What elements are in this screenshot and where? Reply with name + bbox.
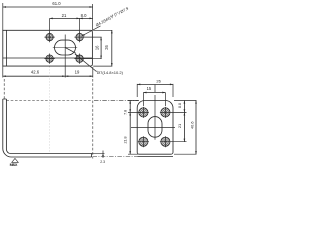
end caps — [3, 99, 92, 157]
plate outline (top view) — [3, 30, 93, 66]
dimension 21 / 8.0 — [50, 18, 80, 32]
hole BR (top view) — [76, 55, 83, 62]
hole TR (top view) — [76, 33, 83, 40]
dimension 15 — [143, 93, 165, 107]
dimension 26 (far right of top view) — [93, 30, 112, 66]
dimension 8.8 / 21 (right) — [183, 101, 185, 142]
dimension 42.6 / 19 — [3, 66, 93, 77]
svg-text:16: 16 — [95, 45, 100, 50]
thickness callout — [102, 151, 104, 158]
svg-text:21.8: 21.8 — [124, 137, 128, 144]
base plate bottom edge line — [137, 156, 173, 158]
slot (front view) — [148, 117, 162, 138]
svg-text:7.8: 7.8 — [123, 110, 127, 115]
right extension lines — [171, 101, 197, 155]
bottom datum centerline — [93, 156, 138, 158]
hole TL (front view) — [139, 108, 148, 117]
svg-text:8.0: 8.0 — [81, 13, 87, 18]
svg-text:26: 26 — [104, 45, 109, 50]
slot vertical centerline — [64, 35, 66, 78]
dimension 40.6 (far right) — [195, 101, 197, 155]
svg-text:21: 21 — [62, 13, 67, 18]
dimension 16 (right of top view) — [84, 37, 102, 59]
svg-text:26: 26 — [156, 79, 161, 84]
left extension lines — [128, 101, 141, 155]
svg-text:15: 15 — [147, 86, 152, 91]
slot centerlines — [131, 85, 175, 140]
hidden projection vertical right (dashed) — [92, 79, 94, 159]
hidden top edge (dashed) — [6, 100, 91, 102]
svg-text:2.3: 2.3 — [100, 160, 105, 164]
hidden projection vertical left (dashed) — [3, 79, 5, 99]
svg-text:Ø7(14.8×10.2): Ø7(14.8×10.2) — [97, 70, 124, 75]
hole TR (front view) — [161, 108, 170, 117]
inner L contour — [6, 99, 91, 154]
plate outline (front view) — [137, 101, 173, 155]
svg-text:42.6: 42.6 — [31, 70, 40, 75]
edge line across plate — [3, 57, 93, 59]
svg-text:61.0: 61.0 — [52, 1, 61, 6]
svg-text:19: 19 — [75, 70, 80, 75]
countersink leader callout — [82, 26, 101, 36]
surface mark symbol — [12, 158, 19, 162]
slot size callout — [75, 54, 98, 71]
faint centerline — [49, 67, 51, 153]
slot radius line — [65, 48, 76, 54]
hole BL (front view) — [139, 137, 148, 146]
hole BL (top view) — [46, 55, 53, 62]
dimension 26 (top of front view) — [137, 84, 173, 97]
outer L contour — [3, 99, 92, 157]
projection centerline horizontal — [94, 100, 139, 102]
thickness extension line — [92, 152, 105, 154]
svg-text:MБX: MБX — [10, 163, 18, 167]
svg-text:40.6: 40.6 — [190, 121, 195, 129]
svg-text:8.8: 8.8 — [178, 103, 182, 108]
slot horizontal centerline — [53, 47, 77, 49]
dimension 61.0 — [3, 3, 93, 30]
hole TL (top view) — [46, 33, 53, 40]
hole BR (front view) — [161, 137, 170, 146]
svg-text:21: 21 — [177, 124, 182, 128]
dimension 7.8 / 21.8 (left) — [129, 101, 131, 155]
bend line — [5, 30, 7, 66]
slot (top view) — [55, 40, 76, 55]
